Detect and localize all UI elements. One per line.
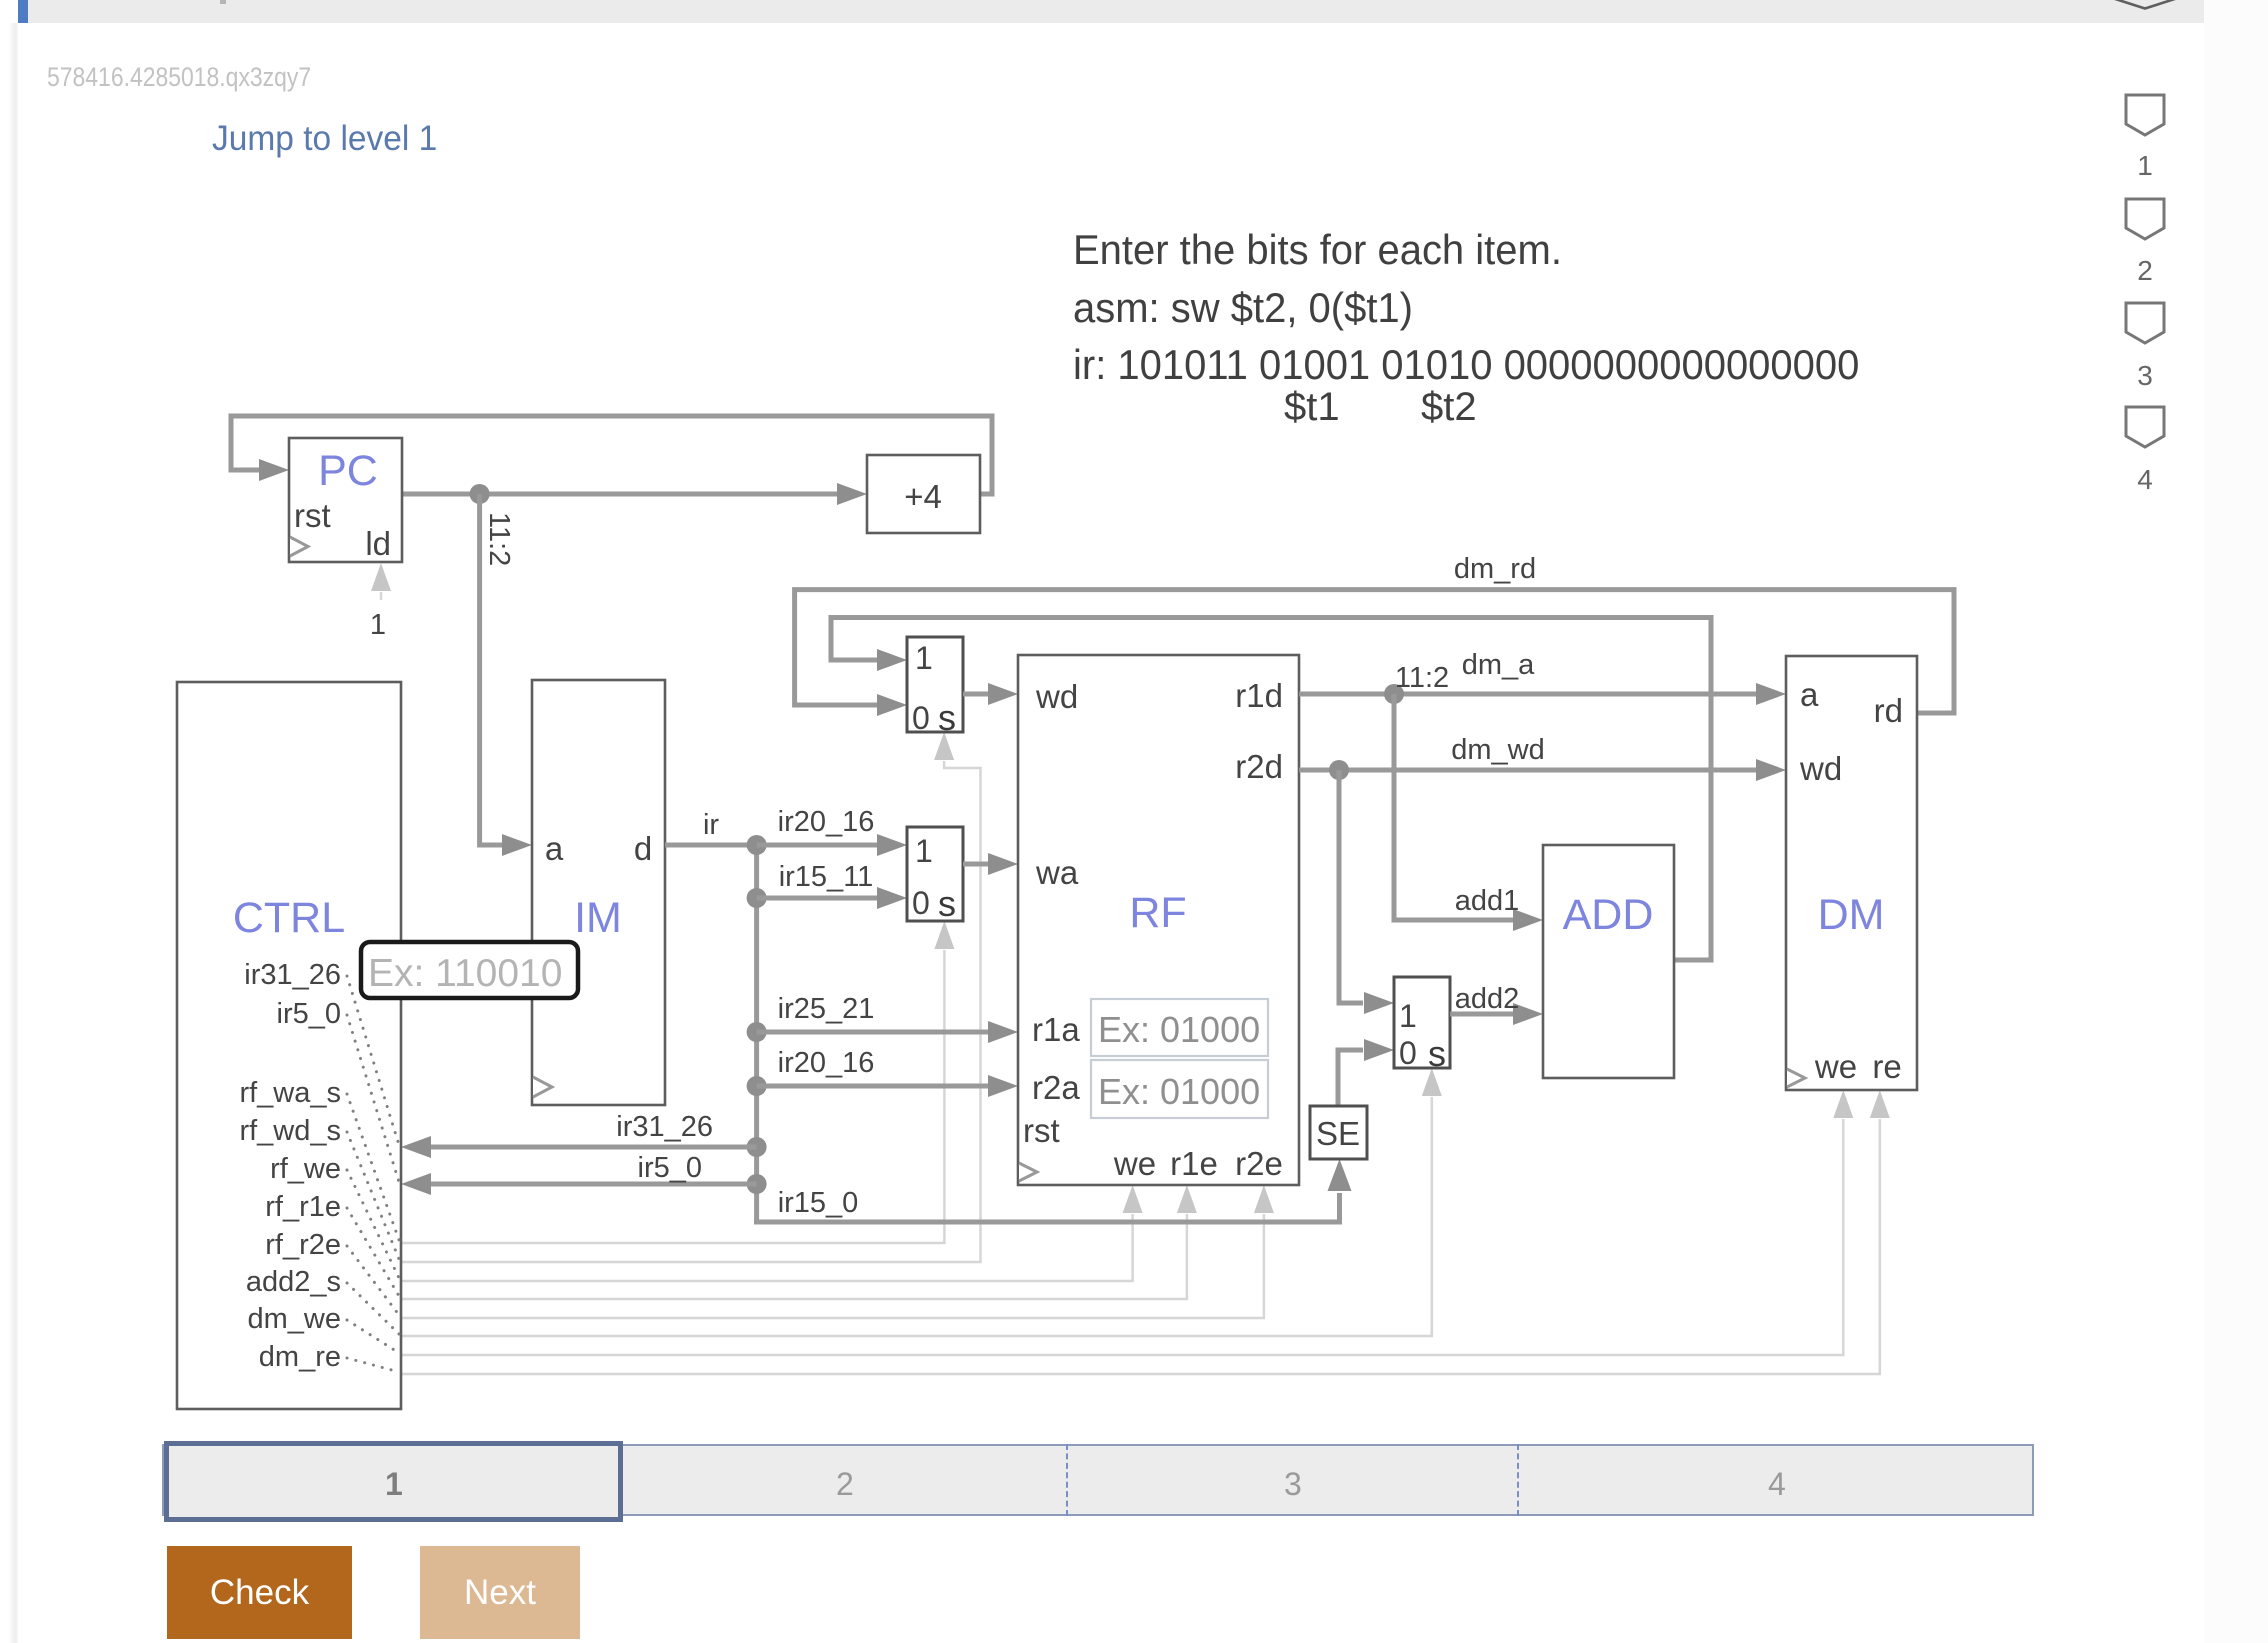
node ir15_11 tap [747, 888, 767, 908]
dotted leader rf_r2e [347, 1246, 399, 1315]
svg-text:1: 1 [915, 833, 933, 869]
svg-text:ir20_16: ir20_16 [778, 1047, 875, 1079]
svg-text:ADD: ADD [1563, 891, 1654, 939]
svg-text:Ex: 110010: Ex: 110010 [368, 952, 562, 995]
svg-text:0: 0 [912, 700, 930, 736]
wire ir25_21 to RF r1a [757, 1030, 988, 1035]
svg-text:1: 1 [370, 609, 386, 641]
svg-text:a: a [1800, 676, 1819, 713]
svg-text:ir20_16: ir20_16 [778, 806, 875, 838]
svg-text:1: 1 [915, 640, 933, 676]
svg-text:wa: wa [1035, 854, 1079, 891]
dotted leader dm_re [347, 1358, 399, 1372]
input field r2a [1091, 1060, 1268, 1118]
control wire rf_we [401, 1214, 1133, 1281]
node ir31_26 tap [747, 1137, 767, 1157]
arrowhead into SE [1328, 1159, 1352, 1191]
node ir5_0 tap [747, 1174, 767, 1194]
svg-text:ir31_26: ir31_26 [244, 959, 341, 991]
wire: wa mux out to RF wa [963, 862, 988, 867]
control wire rf_wa_s to M2 s [401, 950, 944, 1243]
svg-text:wd: wd [1035, 678, 1078, 715]
svg-text:a: a [545, 830, 564, 867]
wire ir15_11 to wa mux input 0 [757, 896, 877, 901]
register file RF [1018, 655, 1299, 1185]
svg-text:wd: wd [1799, 750, 1842, 787]
svg-text:rf_we: rf_we [270, 1153, 341, 1185]
svg-text:r1e: r1e [1170, 1145, 1218, 1182]
wire: dm_rd loop from DM rd to M1 input 0 [795, 590, 1954, 713]
DM clock triangle [1787, 1069, 1805, 1087]
sign extend SE [1310, 1106, 1367, 1159]
wire add2 from M3 to ADD [1450, 1012, 1513, 1017]
svg-text:dm_we: dm_we [248, 1303, 342, 1335]
svg-text:ir15_11: ir15_11 [779, 861, 874, 893]
wire: 11:2 from PC junction down to IM a [480, 494, 502, 845]
svg-text:11:2: 11:2 [483, 512, 515, 566]
svg-text:rf_r2e: rf_r2e [265, 1229, 341, 1261]
svg-text:r1d: r1d [1235, 677, 1283, 714]
svg-text:s: s [1428, 1033, 1446, 1074]
right-side level badges [2124, 93, 2166, 137]
wire r2d tap down to M3 input 1 [1339, 770, 1363, 1003]
svg-text:ir15_0: ir15_0 [778, 1187, 859, 1219]
svg-text:DM: DM [1818, 891, 1885, 939]
svg-text:s: s [938, 697, 956, 738]
node ir25_21 tap [747, 1022, 767, 1042]
svg-text:ir5_0: ir5_0 [638, 1152, 703, 1184]
dotted leader ir5_0 [347, 1015, 399, 1182]
svg-text:IM: IM [574, 894, 622, 942]
svg-text:Ex: 01000: Ex: 01000 [1098, 1071, 1260, 1112]
wire: M1 out to RF wd [963, 692, 988, 697]
svg-text:ir: ir [703, 809, 719, 841]
svg-text:SE: SE [1316, 1115, 1360, 1152]
svg-text:d: d [634, 830, 652, 867]
progress bar [162, 1444, 2034, 1516]
svg-text:dm_a: dm_a [1462, 649, 1535, 681]
svg-text:PC: PC [318, 447, 378, 495]
svg-text:rf_r1e: rf_r1e [265, 1191, 341, 1223]
svg-text:rd: rd [1874, 692, 1903, 729]
svg-text:add2: add2 [1455, 983, 1520, 1015]
svg-text:dm_wd: dm_wd [1451, 734, 1545, 766]
svg-text:r2e: r2e [1235, 1145, 1283, 1182]
control unit CTRL [177, 682, 401, 1409]
arrowhead into +4 [837, 483, 867, 505]
svg-text:add1: add1 [1455, 885, 1520, 917]
dotted leader rf_wd_s [347, 1132, 399, 1259]
dotted leader rf_r1e [347, 1208, 399, 1296]
mux M2 (wa select) [907, 827, 963, 924]
arrowhead into PC [259, 459, 289, 481]
dotted leader ir31_26 [347, 976, 399, 1145]
svg-text:0: 0 [912, 885, 930, 921]
control wire rf_r2e [401, 1214, 1264, 1318]
dotted leader rf_wa_s [347, 1094, 399, 1240]
control wire dm_re [401, 1119, 1880, 1374]
svg-text:we: we [1113, 1145, 1156, 1182]
node: PC output junction [470, 484, 490, 504]
wire add1 from dm_a junction to ADD [1394, 694, 1513, 920]
control wire rf_wd_s to M1 s [401, 761, 981, 1262]
node dm_wd junction [1329, 760, 1349, 780]
wire r2d to DM wd (dm_wd) [1299, 768, 1756, 773]
wire: ir from IM d [665, 843, 757, 848]
svg-text:ir5_0: ir5_0 [277, 998, 342, 1030]
input field r1a [1091, 999, 1268, 1056]
svg-text:we: we [1814, 1048, 1857, 1085]
svg-text:r1a: r1a [1032, 1011, 1080, 1048]
adder +4 [867, 455, 980, 533]
PC clock triangle [290, 537, 308, 556]
node dm_a junction [1384, 684, 1404, 704]
wire: ir15_0 along bottom to SE [754, 1193, 1340, 1222]
svg-text:rf_wd_s: rf_wd_s [239, 1115, 341, 1147]
RF clock triangle [1019, 1163, 1037, 1181]
svg-text:RF: RF [1129, 889, 1186, 937]
next button [420, 1546, 580, 1639]
svg-text:r2a: r2a [1032, 1069, 1080, 1106]
register PC [289, 438, 402, 562]
svg-text:rst: rst [294, 497, 331, 534]
svg-text:ir31_26: ir31_26 [616, 1111, 713, 1143]
wire ir20_16 to wa mux input 1 [757, 843, 877, 848]
node ir20_16 tap [747, 1076, 767, 1096]
control wire add2_s to M3 s [401, 1097, 1432, 1336]
control wire rf_r1e [401, 1214, 1187, 1299]
arrowhead into IM a [502, 834, 532, 856]
svg-text:Ex: 01000: Ex: 01000 [1098, 1009, 1260, 1050]
wire ir31_26 into CTRL [431, 1145, 757, 1150]
svg-text:re: re [1872, 1048, 1901, 1085]
dotted leader dm_we [347, 1320, 399, 1353]
svg-text:1: 1 [1399, 998, 1417, 1034]
adder ADD [1543, 845, 1674, 1078]
svg-text:rf_wa_s: rf_wa_s [239, 1077, 341, 1109]
wire ir20_16 to RF r2a [757, 1084, 988, 1089]
svg-text:11:2: 11:2 [1395, 662, 1449, 694]
wire: PC output to +4 [402, 492, 837, 497]
check button [167, 1546, 352, 1639]
constant 1 into PC ld [370, 563, 391, 641]
svg-text:ir25_21: ir25_21 [778, 993, 875, 1025]
svg-text:ld: ld [365, 525, 391, 562]
wire ir5_0 into CTRL [431, 1182, 757, 1187]
instruction memory IM [532, 680, 665, 1105]
dotted leader rf_we [347, 1170, 399, 1278]
wire: ir bus vertical [754, 842, 759, 1222]
svg-text:rst: rst [1023, 1112, 1060, 1149]
node ir junction [747, 835, 767, 855]
wire: +4 output loop back to PC input [231, 416, 992, 494]
dotted leader add2_s [347, 1283, 399, 1334]
control wire dm_we [401, 1119, 1843, 1355]
wire r1d to DM a (dm_a) [1299, 692, 1756, 697]
svg-text:dm_re: dm_re [259, 1341, 341, 1373]
svg-text:0: 0 [1399, 1035, 1417, 1071]
svg-text:r2d: r2d [1235, 748, 1283, 785]
svg-text:+4: +4 [904, 478, 942, 515]
IM clock triangle [533, 1077, 552, 1097]
svg-text:s: s [938, 883, 956, 924]
input field ir31_26 (focused) [361, 942, 578, 998]
svg-text:CTRL: CTRL [233, 894, 345, 942]
wire SE out to M3 input 0 [1338, 1050, 1363, 1106]
mux M1 (wd select) [907, 637, 963, 738]
svg-text:add2_s: add2_s [246, 1266, 341, 1298]
wire: ADD output loop to M1 input 1 [831, 618, 1711, 961]
mux M3 (add2 select) [1394, 977, 1450, 1074]
svg-text:dm_rd: dm_rd [1454, 553, 1536, 585]
data memory DM [1786, 656, 1917, 1090]
